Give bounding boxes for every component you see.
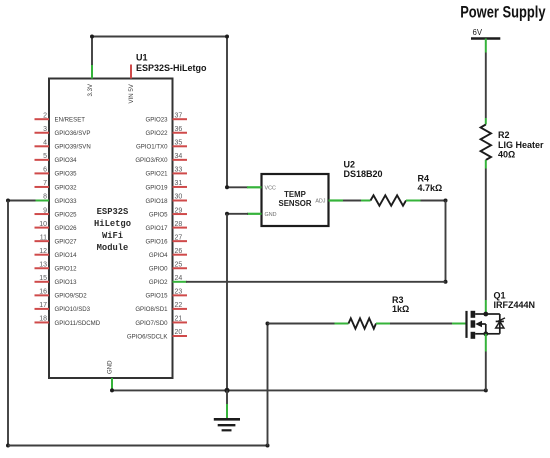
svg-text:ESP32S: ESP32S — [97, 207, 129, 217]
svg-text:GPIO10/SD3: GPIO10/SD3 — [55, 306, 91, 313]
Q1 body diode branch top — [486, 313, 500, 315]
U1 module name text — [94, 207, 131, 253]
bend 3.3V corner — [90, 35, 94, 39]
resistor R4 lead right (green) — [406, 200, 421, 202]
wire bottom horizontal — [8, 445, 268, 447]
U1 pin 30 GPIO18 — [145, 194, 187, 205]
svg-text:31: 31 — [175, 180, 183, 187]
svg-text:GPIO35: GPIO35 — [55, 171, 78, 178]
svg-text:36: 36 — [175, 126, 183, 133]
wire top horizontal 3.3V to U2 VCC — [92, 36, 227, 38]
svg-text:IRFZ444N: IRFZ444N — [494, 300, 536, 310]
svg-text:5: 5 — [43, 153, 47, 160]
svg-text:GPIO7/SD0: GPIO7/SD0 — [135, 320, 168, 327]
svg-text:GPIO13: GPIO13 — [55, 279, 78, 286]
svg-text:GPIO8/SD1: GPIO8/SD1 — [135, 306, 168, 313]
svg-text:40Ω: 40Ω — [498, 150, 515, 160]
svg-text:28: 28 — [175, 221, 183, 228]
Q1 source connection — [475, 333, 486, 335]
wire R4 to corner — [421, 200, 446, 202]
wire R3 to Q1 gate — [390, 323, 452, 325]
svg-text:GND: GND — [265, 212, 277, 218]
wire vertical down to U2 VCC — [226, 37, 228, 188]
junction Q1 source — [483, 331, 488, 336]
U1 pin 10 GPIO26 — [35, 221, 78, 232]
svg-text:GPIO34: GPIO34 — [55, 157, 78, 164]
wire U2 GND down to rail — [226, 214, 228, 391]
svg-text:GPIO23: GPIO23 — [145, 117, 168, 124]
svg-text:GPIO26: GPIO26 — [55, 225, 78, 232]
wire U1 GPIO33 left — [8, 200, 36, 202]
resistor R3 zigzag — [349, 318, 377, 328]
svg-text:GPIO11/SDCMD: GPIO11/SDCMD — [55, 320, 101, 327]
svg-text:GPIO5: GPIO5 — [149, 211, 168, 218]
Q1 body diode branch bottom — [486, 333, 500, 335]
wire Q1 source to rail — [485, 352, 487, 391]
U1 pin 5 GPIO34 — [35, 153, 78, 164]
bend GND pin corner — [110, 388, 114, 392]
svg-text:GPIO22: GPIO22 — [145, 130, 168, 137]
svg-text:R2: R2 — [498, 130, 510, 140]
svg-text:GPIO19: GPIO19 — [145, 184, 168, 191]
svg-text:GPIO15: GPIO15 — [145, 293, 168, 300]
svg-text:GPIO18: GPIO18 — [145, 198, 168, 205]
svg-text:10: 10 — [39, 221, 47, 228]
bend bottom right corner — [266, 444, 270, 448]
U1 pin 7 GPIO32 — [35, 180, 78, 191]
svg-text:U1: U1 — [136, 53, 148, 63]
svg-text:GPIO1/TX0: GPIO1/TX0 — [136, 144, 168, 151]
svg-text:20: 20 — [175, 329, 183, 336]
svg-text:16: 16 — [39, 289, 47, 296]
svg-text:37: 37 — [175, 112, 183, 119]
U1 pin 13 GPIO12 — [35, 261, 78, 272]
bend top right corner — [225, 35, 229, 39]
svg-text:18: 18 — [39, 316, 47, 323]
svg-text:ESP32S-HiLetgo: ESP32S-HiLetgo — [136, 63, 207, 73]
transistor Q1 gate bar — [465, 311, 467, 338]
svg-text:9: 9 — [43, 207, 47, 214]
value LIG Heater — [498, 140, 544, 150]
U1 pin 11 GPIO27 — [35, 234, 78, 245]
wire vertical up to R3 — [267, 324, 269, 446]
svg-text:7: 7 — [43, 180, 47, 187]
svg-text:GPIO6/SDCLK: GPIO6/SDCLK — [127, 333, 168, 340]
svg-text:17: 17 — [39, 302, 47, 309]
value DS18B20 — [344, 169, 383, 179]
U1 pin 37 GPIO23 — [145, 112, 187, 123]
junction ground node — [224, 388, 229, 393]
svg-text:GND: GND — [106, 360, 113, 374]
power supply 6V bar — [471, 37, 500, 40]
transistor Q1 channel pads — [471, 311, 476, 339]
U2 pin ADJ — [315, 199, 343, 205]
U1 pin 3 GPIO36/SVP — [35, 126, 91, 137]
wire U2 GND left — [227, 213, 248, 215]
resistor R2 lead bottom (green) — [485, 160, 487, 169]
svg-text:HiLetgo: HiLetgo — [94, 219, 131, 229]
svg-text:26: 26 — [175, 248, 183, 255]
U2 pin GND — [247, 212, 277, 218]
svg-text:GPIO2: GPIO2 — [149, 279, 168, 286]
bend at VCC level — [225, 185, 229, 189]
svg-text:4: 4 — [43, 140, 47, 147]
svg-text:GPIO4: GPIO4 — [149, 252, 168, 259]
U1 pin 4 GPIO39/SVN — [35, 140, 91, 151]
svg-text:SENSOR: SENSOR — [279, 199, 312, 208]
svg-text:GPIO27: GPIO27 — [55, 238, 78, 245]
value 40&#937; — [498, 150, 515, 160]
U1 pin 3.3V (connected) — [87, 65, 94, 97]
U1 pin 24 GPIO2 — [149, 275, 187, 286]
value IRFZ444N — [494, 300, 536, 310]
svg-text:ADJ: ADJ — [315, 199, 325, 205]
svg-text:GPIO9/SD2: GPIO9/SD2 — [55, 293, 88, 300]
svg-text:11: 11 — [40, 234, 47, 241]
label R4 — [418, 173, 430, 183]
svg-text:GPIO16: GPIO16 — [145, 238, 168, 245]
junction Q1 drain — [483, 312, 488, 317]
U1 pin 31 GPIO19 — [145, 180, 187, 191]
svg-text:6: 6 — [43, 167, 47, 174]
svg-text:GPIO36/SVP: GPIO36/SVP — [55, 130, 91, 137]
U1 pin 6 GPIO35 — [35, 167, 78, 178]
wire R2 to Q1 drain — [485, 169, 487, 301]
resistor R2 lead top (green) — [485, 118, 487, 125]
svg-text:8: 8 — [43, 194, 47, 201]
svg-text:15: 15 — [39, 275, 47, 282]
wire 6V down to R2 — [485, 53, 487, 119]
bend R4 right corner — [444, 199, 448, 203]
Q1 drain connection — [475, 313, 486, 315]
U1 pin 35 GPIO1/TX0 — [136, 140, 187, 151]
svg-text:R4: R4 — [418, 173, 430, 183]
resistor R4 zigzag — [371, 195, 407, 205]
U1 pin 20 GPIO6/SDCLK — [127, 329, 187, 340]
svg-text:EN/RESET: EN/RESET — [55, 117, 86, 124]
U1 pin 18 GPIO11/SDCMD — [35, 316, 101, 327]
svg-text:25: 25 — [175, 261, 183, 268]
label 6V — [473, 28, 483, 37]
IC U2 DS18B20 temp sensor body — [262, 174, 329, 226]
svg-text:3.3V: 3.3V — [87, 83, 94, 96]
bend R3 left corner — [266, 322, 270, 326]
wire 3.3V pin up — [91, 37, 93, 66]
U1 pin 27 GPIO16 — [145, 234, 187, 245]
svg-text:GPIO33: GPIO33 — [55, 198, 78, 205]
svg-text:30: 30 — [175, 194, 183, 201]
label Q1 — [494, 290, 506, 300]
U1 pin 23 GPIO15 — [145, 289, 187, 300]
resistor R2 zigzag — [481, 125, 491, 161]
svg-text:TEMP: TEMP — [284, 190, 306, 199]
U1 pin 36 GPIO22 — [145, 126, 187, 137]
svg-text:34: 34 — [175, 153, 183, 160]
transistor Q1 body arrow — [475, 321, 486, 334]
wire down to GPIO2 row — [445, 201, 447, 282]
svg-text:27: 27 — [175, 234, 183, 241]
svg-text:2: 2 — [43, 112, 47, 119]
ground symbol stem — [226, 390, 228, 418]
svg-text:13: 13 — [39, 261, 47, 268]
svg-text:GPIO25: GPIO25 — [55, 211, 78, 218]
svg-text:U2: U2 — [344, 160, 356, 170]
bend rail right end — [484, 388, 488, 392]
svg-text:3: 3 — [43, 126, 47, 133]
svg-text:DS18B20: DS18B20 — [344, 169, 383, 179]
U1 pin 17 GPIO10/SD3 — [35, 302, 91, 313]
svg-text:6V: 6V — [473, 28, 483, 37]
svg-text:WiFi: WiFi — [102, 231, 123, 241]
value ESP32S-HiLetgo — [136, 63, 207, 73]
U1 pin 21 GPIO7/SD0 — [135, 316, 187, 327]
svg-text:Module: Module — [97, 243, 129, 253]
svg-text:35: 35 — [175, 140, 183, 147]
svg-text:1kΩ: 1kΩ — [392, 304, 409, 314]
svg-text:GPIO12: GPIO12 — [55, 266, 78, 273]
svg-text:24: 24 — [175, 275, 183, 282]
U1 pin 28 GPIO17 — [145, 221, 187, 232]
svg-text:LIG Heater: LIG Heater — [498, 140, 544, 150]
U1 pin 16 GPIO9/SD2 — [35, 289, 88, 300]
Q1 drain lead (green) — [485, 300, 487, 314]
label U1 — [136, 53, 148, 63]
wire to U1 GPIO2 pin 24 — [186, 281, 446, 283]
svg-text:Q1: Q1 — [494, 290, 506, 300]
U1 pin 12 GPIO14 — [35, 248, 78, 259]
resistor R3 lead right (green) — [376, 323, 390, 325]
label R2 — [498, 130, 510, 140]
value 4.7k&#937; — [418, 183, 443, 193]
Q1 gate lead (green) — [452, 323, 467, 325]
svg-text:GPIO0: GPIO0 — [149, 266, 168, 273]
bend U2 GND corner — [225, 212, 229, 216]
svg-text:GPIO39/SVN: GPIO39/SVN — [55, 144, 91, 151]
Q1 source lead (green) — [485, 334, 487, 352]
Q1 body diode — [496, 314, 505, 334]
resistor R4 lead left (green) — [361, 200, 371, 202]
value 1k&#937; — [392, 304, 409, 314]
bend bottom left corner — [6, 444, 10, 448]
U1 pin 15 GPIO13 — [35, 275, 78, 286]
svg-text:29: 29 — [175, 207, 183, 214]
U1 pin 8 GPIO33 — [35, 194, 78, 205]
U1 pin 2 EN/RESET — [35, 112, 86, 123]
U1 pin 33 GPIO21 — [145, 167, 187, 178]
IC U1 ESP32S-HiLetgo module body — [49, 79, 173, 379]
U1 pin 29 GPIO5 — [149, 207, 187, 218]
U1 pin 25 GPIO0 — [149, 261, 187, 272]
svg-text:Power Supply: Power Supply — [460, 3, 546, 22]
U1 pin 22 GPIO8/SD1 — [135, 302, 187, 313]
U1 pin VIN 5V — [128, 65, 135, 104]
label Power Supply — [460, 3, 546, 22]
bend GPIO33 corner — [6, 199, 10, 203]
U1 pin 26 GPIO4 — [149, 248, 187, 259]
U1 pin 9 GPIO25 — [35, 207, 78, 218]
svg-text:GPIO17: GPIO17 — [145, 225, 168, 232]
svg-text:VIN 5V: VIN 5V — [128, 83, 135, 103]
wire ground rail — [112, 389, 486, 391]
svg-text:33: 33 — [175, 167, 183, 174]
svg-text:GPIO3/RX0: GPIO3/RX0 — [135, 157, 168, 164]
wire into U2 VCC — [227, 186, 248, 188]
label U2 — [344, 160, 356, 170]
svg-text:23: 23 — [175, 289, 183, 296]
svg-text:GPIO21: GPIO21 — [145, 171, 168, 178]
wire corner to R3 — [268, 323, 335, 325]
U2 pin VCC — [247, 186, 276, 192]
resistor R3 lead left (green) — [335, 323, 349, 325]
power lead (green) — [485, 39, 487, 53]
wire U2 ADJ to R4 — [343, 200, 361, 202]
U1 pin 34 GPIO3/RX0 — [135, 153, 187, 164]
U1 pin GND (bottom) — [106, 360, 113, 391]
label R3 — [392, 295, 404, 305]
wire left vertical down — [7, 201, 9, 446]
svg-text:21: 21 — [175, 316, 183, 323]
bend GPIO2 corner — [444, 280, 448, 284]
svg-text:12: 12 — [39, 248, 47, 255]
svg-text:22: 22 — [175, 302, 183, 309]
svg-text:VCC: VCC — [265, 186, 276, 192]
svg-text:GPIO32: GPIO32 — [55, 184, 78, 191]
ground symbol bars — [214, 419, 240, 430]
svg-text:4.7kΩ: 4.7kΩ — [418, 183, 443, 193]
svg-text:GPIO14: GPIO14 — [55, 252, 78, 259]
